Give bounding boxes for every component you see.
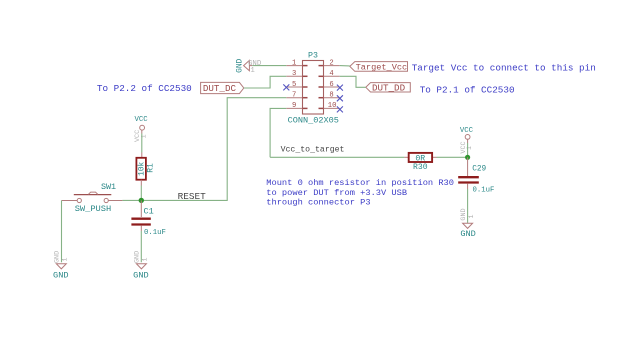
svg-text:7: 7 <box>292 92 296 100</box>
svg-text:3: 3 <box>292 70 296 78</box>
hierarchical label DUT_DC <box>201 82 244 94</box>
svg-text:10k: 10k <box>139 161 147 175</box>
svg-text:10: 10 <box>328 102 337 110</box>
pin 6 of P3 <box>319 81 340 89</box>
ground symbol at pin 1 <box>235 58 262 74</box>
svg-text:R1: R1 <box>147 163 156 173</box>
svg-text:2: 2 <box>329 59 333 67</box>
svg-text:GND: GND <box>134 251 142 263</box>
wire R1 to RESET junction <box>140 186 142 201</box>
wire pin9 down to Vcc_to_target net <box>270 108 286 157</box>
svg-text:1: 1 <box>142 257 149 261</box>
wire pin2 to Target_Vcc <box>340 65 350 67</box>
svg-text:0.1uF: 0.1uF <box>144 229 166 237</box>
switch SW1 SW_PUSH <box>62 182 123 214</box>
svg-text:Mount 0 ohm resistor in positi: Mount 0 ohm resistor in position R30 <box>266 178 454 188</box>
svg-text:SW_PUSH: SW_PUSH <box>75 204 112 214</box>
svg-text:1: 1 <box>250 67 255 75</box>
svg-text:GND: GND <box>235 58 244 72</box>
svg-text:4: 4 <box>329 70 333 78</box>
wire C29 to GND <box>467 189 469 223</box>
svg-text:Target Vcc to connect to this: Target Vcc to connect to this pin <box>412 62 596 73</box>
ground symbol below C1 <box>133 251 149 281</box>
note: Mount 0 ohm resistor block <box>266 178 454 207</box>
hierarchical label Target_Vcc <box>350 62 408 73</box>
wire Vcc_to_target left segment <box>270 156 404 158</box>
svg-text:1: 1 <box>292 59 296 67</box>
pin 5 of P3 <box>286 81 307 89</box>
svg-text:through connector P3: through connector P3 <box>266 197 370 207</box>
svg-text:C1: C1 <box>144 206 154 216</box>
svg-text:To P2.1 of CC2530: To P2.1 of CC2530 <box>420 85 515 96</box>
svg-text:9: 9 <box>292 102 296 110</box>
svg-text:SW1: SW1 <box>101 182 116 192</box>
svg-text:GND: GND <box>53 270 68 280</box>
power VCC right <box>460 127 474 154</box>
pin 8 of P3 <box>319 92 340 100</box>
no-connect X pin6 <box>337 85 343 91</box>
wire VCC to junction <box>467 143 469 157</box>
wire pin4 to DUT_DD <box>340 76 366 87</box>
svg-text:GND: GND <box>460 229 475 239</box>
power VCC left <box>134 116 148 142</box>
capacitor C1 <box>131 200 166 237</box>
svg-text:DUT_DD: DUT_DD <box>372 83 406 94</box>
no-connect X pin10 <box>337 106 343 112</box>
wire DUT_DC to pin3 <box>244 76 286 88</box>
svg-text:GND: GND <box>133 270 148 280</box>
svg-text:VCC: VCC <box>135 116 149 124</box>
resistor R1 <box>136 153 155 186</box>
svg-text:C29: C29 <box>472 165 486 173</box>
wire R30 to VCC junction <box>437 156 468 158</box>
wire VCC to R1 <box>141 134 143 153</box>
pin 7 of P3 <box>286 92 307 100</box>
pin 10 of P3 <box>319 102 340 110</box>
svg-text:5: 5 <box>292 81 296 89</box>
hierarchical label DUT_DD <box>366 83 411 94</box>
pin 2 of P3 <box>319 59 340 67</box>
pin 4 of P3 <box>319 70 340 78</box>
svg-text:P3: P3 <box>308 51 318 60</box>
ground symbol below C29 <box>460 208 476 238</box>
wire SW1 left leg down <box>61 201 63 263</box>
junction RESET node <box>139 198 144 203</box>
resistor R30 <box>404 153 436 172</box>
ground symbol below SW1 <box>53 251 69 281</box>
svg-text:To P2.2 of CC2530: To P2.2 of CC2530 <box>97 83 192 94</box>
svg-text:GND: GND <box>460 208 468 220</box>
svg-text:6: 6 <box>329 81 333 89</box>
svg-text:8: 8 <box>329 92 333 100</box>
svg-text:DUT_DC: DUT_DC <box>203 83 237 94</box>
svg-text:R30: R30 <box>413 163 428 172</box>
wire C1 to GND <box>140 231 142 262</box>
no-connect X pin5 <box>283 84 289 90</box>
pin 9 of P3 <box>286 102 307 110</box>
svg-text:RESET: RESET <box>178 191 207 202</box>
svg-text:VCC: VCC <box>460 127 474 135</box>
no-connect X pin8 <box>337 95 343 101</box>
svg-text:Vcc_to_target: Vcc_to_target <box>281 146 345 155</box>
svg-text:CONN_02X05: CONN_02X05 <box>288 116 339 126</box>
wire GND to pin1 <box>252 65 286 67</box>
svg-text:to power DUT from +3.3V USB: to power DUT from +3.3V USB <box>266 188 407 198</box>
svg-text:1: 1 <box>62 257 69 261</box>
pin 1 of P3 <box>286 59 307 67</box>
svg-text:1: 1 <box>468 214 475 218</box>
svg-text:GND: GND <box>53 251 61 263</box>
wire RESET node to pin7 <box>122 98 286 201</box>
junction at VCC/C29 <box>465 155 470 160</box>
svg-text:1: 1 <box>466 146 473 150</box>
connector U P3 body <box>288 51 339 125</box>
pin 3 of P3 <box>286 70 307 78</box>
svg-text:0.1uF: 0.1uF <box>473 186 495 194</box>
capacitor C29 <box>458 157 494 194</box>
svg-text:Target_Vcc: Target_Vcc <box>356 63 408 73</box>
